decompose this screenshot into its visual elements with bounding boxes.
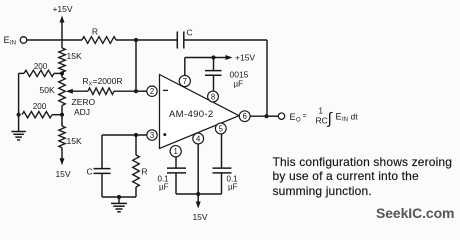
pin 5 [215,123,226,134]
caption text [273,155,453,199]
svg-text:E: E [336,112,342,122]
svg-text:5: 5 [219,124,224,133]
node divider bottom (junction dot) [60,113,64,117]
pin 2 [147,86,157,96]
svg-text:50K: 50K [40,85,55,95]
svg-text:=2000R: =2000R [93,76,123,86]
node +15V supply (junction dot) [211,55,215,59]
node ground branch (junction dot) [17,113,21,117]
svg-text:µF: µF [159,183,169,192]
svg-text:∫: ∫ [327,111,334,128]
svg-text:8: 8 [211,92,215,101]
power -15V (left) [61,148,63,160]
svg-text:ZERO: ZERO [72,97,96,107]
svg-text:3: 3 [150,131,154,140]
pin 6 and output wire [250,115,267,117]
svg-text:+15V: +15V [235,53,255,63]
capacitor C (comp) [101,135,103,168]
ground (comp network) [118,197,120,203]
resistor Rx=2000R [88,88,114,95]
wire R to node A [116,39,136,41]
node divider top (junction dot) [60,71,64,75]
wire RC network to pin 3 [102,134,147,136]
svg-text:C: C [187,28,193,38]
capacitor 0.1uF (left bypass) [167,167,186,169]
wire node B to pin 2 [136,90,147,92]
svg-text:R: R [142,167,148,177]
node A summing feed (junction dot) [134,38,138,42]
svg-text:15K: 15K [67,51,82,61]
pin 7 [179,75,190,86]
power -15V (bottom) [197,194,199,204]
svg-text:200: 200 [33,102,47,111]
resistor 15K (upper divider) [59,48,66,72]
resistor R (input) [82,37,116,44]
wire bypass bottom rail [176,193,222,195]
svg-text:4: 4 [196,134,201,143]
svg-text:µF: µF [228,183,238,192]
svg-text:0015: 0015 [230,70,249,80]
svg-text:AM-490-2: AM-490-2 [169,109,214,120]
svg-text:1: 1 [174,147,178,156]
svg-text:7: 7 [183,77,187,86]
wire [61,72,63,77]
svg-text:1: 1 [319,107,323,116]
resistor 200 (lower) [22,112,52,118]
svg-text:15V: 15V [192,212,207,222]
node comp ground (junction dot) [117,195,121,199]
svg-text:IN: IN [10,41,16,47]
terminal E_O [267,115,279,117]
capacitor 0.1uF (right bypass) [213,167,232,169]
capacitor C (integrator feedback) [136,39,177,41]
wiper arrow ZERO ADJ [70,90,88,92]
wire node A down to node B [135,40,137,91]
capacitor 0015 uF (supply bypass) [213,58,215,71]
wire pin 7 up [184,58,186,77]
svg-text:C: C [87,167,93,177]
power +15V (supply arrow) [214,57,228,59]
svg-text:IN: IN [342,117,348,123]
potentiometer 50K [59,77,66,105]
pin 8 [208,91,219,102]
svg-text:E: E [290,112,296,122]
node output (junction dot) [264,114,268,118]
resistor R (comp) [135,135,137,155]
svg-text:15V: 15V [55,169,70,179]
node -15V supply (junction dot) [196,192,200,196]
wire pin 5 down [221,134,223,168]
comp network: wire junction for R [134,133,138,137]
wire input to R [27,39,82,41]
wire comp bottom [102,196,136,198]
svg-text:E: E [4,35,10,45]
svg-text:15K: 15K [67,136,82,146]
ground (left) [18,115,20,131]
svg-text:2: 2 [150,87,154,96]
wire [61,106,63,127]
svg-text:=: = [303,113,307,120]
resistor 15K (lower divider) [59,126,65,148]
wire pin 4 down [197,144,199,194]
svg-text:dt: dt [351,112,359,122]
wire feedback top and right [184,39,267,41]
svg-text:µF: µF [234,80,244,89]
resistor 200 (upper) [19,72,24,74]
pin 4 [193,133,204,144]
svg-text:R: R [92,27,98,37]
svg-text:RC: RC [316,116,328,126]
node B summing junction (dot) [134,89,138,93]
svg-text:6: 6 [243,112,247,121]
svg-text:+15V: +15V [52,4,72,14]
wire left branch vertical [18,73,20,114]
op-amp U1 AM-490-2 [160,75,240,149]
wire pin 1 down [175,157,177,168]
pin 1 [170,146,181,157]
inverting input minus [163,89,168,91]
svg-text:O: O [296,118,301,124]
svg-text:200: 200 [34,62,48,71]
svg-text:ADJ: ADJ [74,107,90,117]
non-inverting input mark [163,133,166,136]
SeekIC.com logo [376,205,454,221]
